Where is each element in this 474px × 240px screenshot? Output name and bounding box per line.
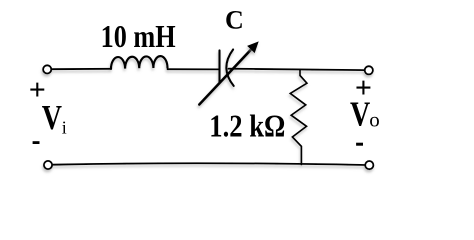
arrow of variable capacitor bbox=[199, 50, 251, 105]
label Vo bbox=[350, 94, 380, 133]
inductor L 10 mH bbox=[111, 56, 167, 69]
svg-text:V: V bbox=[350, 94, 370, 133]
capacitor C left plate bbox=[218, 50, 220, 82]
wire inductor to capacitor bbox=[168, 68, 219, 70]
arrowhead of variable capacitor bbox=[247, 41, 259, 53]
capacitor C right curved plate bbox=[226, 50, 233, 86]
wire top-left bbox=[52, 68, 112, 70]
svg-text:V: V bbox=[42, 98, 62, 137]
terminal input bottom bbox=[44, 161, 52, 169]
svg-text:C: C bbox=[225, 5, 244, 34]
svg-text:10 mH: 10 mH bbox=[101, 19, 176, 54]
terminal output top bbox=[365, 66, 373, 74]
svg-text:o: o bbox=[369, 108, 380, 132]
resistor R 1.2 kOhm bbox=[290, 70, 307, 165]
label minus output bbox=[356, 143, 363, 146]
terminal input top bbox=[43, 65, 51, 73]
terminal output bottom bbox=[365, 161, 373, 169]
wire bottom rail bbox=[52, 163, 365, 165]
label minus input bbox=[33, 141, 40, 144]
wire capacitor to output bbox=[229, 69, 365, 70]
label Vi bbox=[42, 98, 67, 137]
svg-text:1.2 kΩ: 1.2 kΩ bbox=[209, 108, 285, 143]
svg-text:i: i bbox=[62, 118, 67, 138]
